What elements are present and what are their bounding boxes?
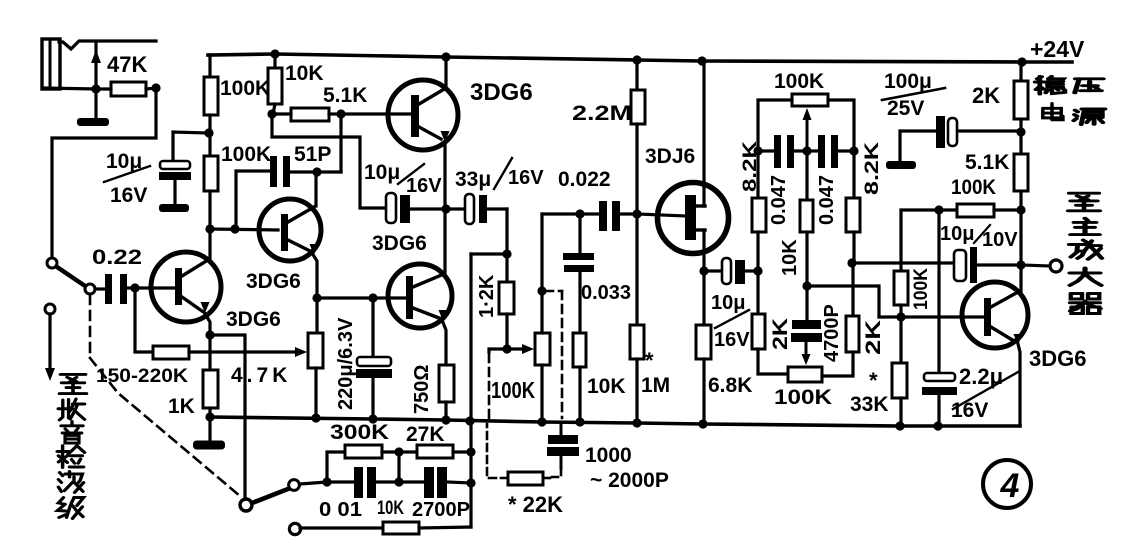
wire FET drain to rail [702, 61, 705, 206]
capacitor 0.022 [580, 212, 599, 215]
resistor 6.8K [702, 271, 705, 325]
capacitor 0.01 [327, 480, 354, 483]
node tone column rail crossing [465, 416, 474, 425]
switch S1a blade [57, 267, 85, 286]
figure number 4 circled [983, 460, 1031, 508]
node 5.1K right [336, 109, 345, 118]
wire Q4 collector column [443, 209, 446, 275]
node 10K top [270, 49, 279, 58]
wire tone column down [469, 254, 472, 527]
node 10K bottom [575, 417, 584, 426]
transistor Q2 3DG6 [259, 199, 321, 261]
resistor 10K mid [805, 151, 808, 200]
svg-text:3DJ6: 3DJ6 [645, 145, 695, 168]
resistor 47K [111, 82, 146, 96]
svg-text:4: 4 [1000, 467, 1020, 505]
phone jack J1 [42, 39, 60, 89]
wire Q1 emitter down [204, 312, 210, 335]
node 100K-33K junction [896, 312, 905, 321]
node Q1 base [130, 283, 139, 292]
resistor 5.1K [291, 108, 329, 121]
resistor 2.2M [635, 60, 638, 90]
transistor U1 3DJ6 FET [658, 183, 729, 254]
wire base bus to Q2 [210, 229, 278, 230]
svg-text:3DG6: 3DG6 [1029, 346, 1086, 371]
svg-text:1M: 1M [641, 374, 670, 397]
node rail left end [205, 412, 214, 421]
wire Q6 collector [1019, 265, 1022, 292]
terminal to main amp [1050, 260, 1062, 272]
resistor 27K [417, 445, 453, 458]
node FET source [699, 266, 708, 275]
resistor 100K feedback vertical [901, 210, 939, 271]
resistor 10K series [300, 526, 383, 529]
potentiometer 100K treble [792, 94, 828, 106]
svg-text:100K: 100K [774, 386, 832, 409]
svg-text:100K: 100K [951, 176, 996, 199]
node 6.8K bottom [698, 419, 707, 428]
node 5.1K left [267, 109, 276, 118]
node 0.01-2700P [394, 477, 403, 486]
capacitor 10u/16V source [704, 269, 722, 272]
wire 4700P wiper arrow [805, 342, 808, 355]
node FET source tone [753, 266, 762, 275]
capacitor 33u/16V [446, 207, 465, 210]
svg-text:4700P: 4700P [821, 304, 843, 362]
resistor 10K shunt [573, 333, 586, 367]
node 33K bottom [895, 421, 904, 430]
capacitor 2.2u/16V [924, 373, 955, 381]
wire 150-220K to 4.7K wiper arrow [189, 350, 296, 353]
wire Q2 emitter to Q4 base [317, 296, 406, 299]
wire 5.1K left loop to 10u cap [272, 114, 386, 208]
svg-text:220μ/6.3V: 220μ/6.3V [335, 317, 357, 410]
resistor 100K lower [204, 156, 218, 191]
node wiper [502, 344, 511, 353]
wire treble wiper arrow [806, 118, 809, 151]
svg-text:100K: 100K [911, 268, 932, 310]
node 100K junction [204, 128, 213, 137]
svg-text:25V: 25V [887, 97, 924, 120]
transistor Q6 3DG6 [962, 282, 1028, 348]
svg-text:0.022: 0.022 [558, 168, 611, 191]
wire radio output arrow [48, 314, 51, 370]
dashed wiper branch down [488, 354, 491, 418]
node rail 2.2M [632, 55, 641, 64]
node base bus mid [230, 224, 239, 233]
wire 51P left column [236, 171, 270, 229]
svg-text:150-220K: 150-220K [96, 365, 188, 387]
label 至收音检波级 to radio detector vertical [60, 374, 87, 393]
svg-text:~ 2000P: ~ 2000P [590, 469, 669, 492]
node jack-right junction [151, 83, 160, 92]
node mid tone [802, 281, 811, 290]
capacitor 2700P [424, 467, 434, 498]
ground rail left [208, 417, 211, 441]
wire Q2 collector [314, 172, 317, 206]
node gate [632, 209, 641, 218]
capacitor 10u/10V out [953, 263, 955, 265]
wire pot top node [542, 212, 580, 215]
capacitor 220u/6.3V [371, 298, 374, 357]
capacitor 0.22 input [105, 274, 112, 304]
capacitor 10u/16V input bypass [173, 132, 209, 161]
wire 47K node down-left to switch [52, 88, 156, 258]
wire Q3 base [341, 112, 411, 115]
svg-text:10V: 10V [982, 229, 1018, 251]
resistor 2K right [846, 316, 859, 352]
node 100u tap [1016, 127, 1025, 136]
node emitter junction [441, 204, 450, 213]
svg-text:2K: 2K [972, 83, 1000, 108]
switch S1b contact A [289, 480, 300, 491]
capacitor 4700P [792, 320, 821, 329]
svg-text:2K: 2K [769, 318, 792, 350]
svg-text:27K: 27K [406, 423, 445, 446]
node right tone [847, 258, 856, 267]
switch S1a contact from preamp [47, 258, 57, 268]
node 220u ground [368, 414, 377, 423]
svg-text:47K: 47K [107, 52, 147, 77]
node 2.2u bottom [933, 421, 942, 430]
dashed link 22K left [487, 424, 508, 478]
capacitor 0.047 left [758, 149, 774, 152]
svg-text:16V: 16V [714, 329, 750, 351]
node Q3 collector rail [441, 52, 450, 61]
svg-text:2K: 2K [862, 320, 885, 355]
svg-text:10K: 10K [779, 239, 801, 276]
dashed wire pot tap to loudness [545, 290, 562, 293]
svg-text:10K: 10K [285, 62, 324, 85]
wire bottom ground rail [210, 417, 1020, 426]
svg-text:8.2K: 8.2K [862, 142, 883, 195]
svg-text:16V: 16V [110, 184, 147, 207]
capacitor 0.033 [578, 214, 581, 253]
svg-text:* 22K: * 22K [508, 492, 563, 517]
label 稳压电源 regulated power supply [1035, 76, 1065, 94]
svg-text:3DG6: 3DG6 [226, 308, 281, 331]
switch S1a contact radio [45, 304, 55, 314]
switch S1b blade [252, 489, 288, 503]
svg-text:10μ: 10μ [940, 223, 974, 245]
node 100K bias right [1016, 205, 1025, 214]
resistor 8.2K left [756, 151, 759, 198]
capacitor 10u/16V coupling [386, 193, 396, 223]
node 1M bottom [632, 418, 641, 427]
resistor 750ohm [442, 320, 446, 365]
svg-text:300K: 300K [330, 421, 389, 444]
potentiometer 100K volume [535, 333, 550, 365]
resistor 2K left [752, 314, 765, 349]
wire Q1 emitter to tone switch [210, 335, 245, 500]
wire Q6 emitter to rail [1018, 344, 1020, 426]
dashed gang link S1a-S1b [89, 295, 92, 358]
wire jack signal lead with up arrow [94, 42, 97, 88]
wire bias column down [937, 210, 940, 373]
svg-text:100K: 100K [491, 377, 535, 403]
svg-text:10μ: 10μ [364, 161, 400, 184]
svg-text:16V: 16V [508, 167, 544, 189]
svg-text:1000: 1000 [585, 444, 632, 467]
resistor 1K [208, 335, 211, 370]
switch S1b pole [240, 499, 252, 511]
node 750 bottom [441, 415, 450, 424]
svg-text:33K: 33K [850, 393, 889, 416]
wire left tone column [756, 232, 759, 314]
wire wiper left branch [489, 349, 507, 352]
svg-text:2700P: 2700P [412, 499, 470, 521]
label 至主放大器 to main amplifier vertical [1068, 193, 1100, 211]
transistor Q1 3DG6 [151, 252, 221, 322]
resistor 1M [635, 214, 638, 325]
svg-text:*: * [869, 368, 878, 393]
svg-text:10K: 10K [377, 498, 404, 519]
node Q1 emitter [205, 330, 214, 339]
transistor Q3 3DG6 [388, 80, 458, 150]
resistor 22K [508, 472, 543, 485]
svg-text:10μ: 10μ [711, 292, 745, 314]
wire Q6 base [879, 315, 984, 318]
node 27K right [466, 447, 475, 456]
resistor 150-220K feedback [135, 288, 153, 352]
node jack-left junction [91, 84, 100, 93]
node 2700P right [466, 478, 475, 487]
node 300K-27K [394, 447, 403, 456]
node Q2 emitter [312, 293, 321, 302]
wire wiper arrow to volume pot [507, 347, 522, 350]
svg-text:5.1K: 5.1K [965, 151, 1009, 174]
svg-text:16V: 16V [406, 175, 442, 197]
resistor 10K [273, 54, 276, 68]
svg-text:100K: 100K [220, 77, 270, 100]
wire jack bottom to node [43, 88, 96, 89]
svg-text:*: * [645, 348, 654, 373]
node 1.2K top [502, 249, 511, 258]
resistor 300K [327, 452, 345, 482]
svg-text:33μ: 33μ [455, 168, 491, 191]
wire top +24V supply rail [208, 54, 1072, 62]
resistor 100K upper [208, 55, 211, 77]
wire FET source down [702, 230, 705, 271]
svg-text:5.1K: 5.1K [323, 84, 367, 107]
svg-text:51P: 51P [294, 143, 331, 166]
capacitor 51P [270, 156, 277, 187]
node rail drain [697, 56, 706, 65]
svg-text:3DG6: 3DG6 [470, 79, 533, 106]
wire Q1 collector up [208, 229, 211, 261]
svg-text:0.22: 0.22 [92, 246, 142, 269]
node 220u tap [368, 293, 377, 302]
capacitor 0.047 right [807, 149, 818, 152]
svg-text:100K: 100K [774, 70, 824, 93]
resistor 33K [899, 317, 902, 363]
wire supply column to output node [1019, 210, 1022, 265]
wire Q3 collector to rail [444, 57, 447, 88]
wire 33u out down [505, 209, 508, 254]
svg-text:0.047: 0.047 [816, 175, 838, 225]
dashed link cap to 22K [552, 468, 561, 477]
wire Q3 emitter down [443, 142, 446, 209]
capacitor 100u/25V [957, 129, 1021, 132]
node 0.033 tap [575, 209, 584, 218]
node pot top tap [537, 286, 546, 295]
wire 5.1K right down to 51P [339, 114, 342, 172]
wire link [397, 452, 400, 482]
wire right tone to output cap [853, 261, 954, 264]
wire node to tone column [471, 252, 507, 255]
switch S1b contact B [289, 523, 300, 534]
wire mid tone to Q6 base [807, 286, 879, 317]
node bias top [934, 205, 943, 214]
svg-text:3DG6: 3DG6 [372, 232, 427, 255]
svg-text:+24V: +24V [1030, 36, 1085, 62]
svg-text:0.047: 0.047 [768, 175, 790, 225]
node rail 2K [1017, 57, 1026, 66]
node 300K left [322, 477, 331, 486]
node treble right [849, 146, 858, 155]
svg-text:1K: 1K [168, 395, 195, 418]
switch S1a pole [85, 284, 95, 294]
resistor 1.2K [505, 254, 508, 282]
wire right tone column [852, 232, 855, 263]
node 4.7K bottom [311, 413, 320, 422]
resistor 5.1K supply [1014, 154, 1028, 191]
wire contact A bus [300, 482, 327, 484]
resistor 2K supply [1019, 62, 1022, 81]
svg-text:2.2M: 2.2M [572, 102, 632, 125]
svg-text:0 01: 0 01 [319, 499, 362, 521]
wire gate [637, 214, 686, 216]
node treble left [753, 146, 762, 155]
svg-text:100K: 100K [221, 143, 271, 166]
svg-text:16V: 16V [951, 399, 988, 422]
svg-text:750Ω: 750Ω [411, 365, 433, 414]
svg-text:10K: 10K [587, 375, 626, 398]
resistor 100K bias top [939, 208, 957, 211]
transistor Q4 3DG6 [388, 264, 452, 328]
node base bus left [205, 224, 214, 233]
svg-text:4.7K: 4.7K [231, 364, 291, 387]
resistor 4.7K emitter preset [315, 298, 318, 333]
ground jack node [94, 89, 97, 118]
resistor 8.2K right [852, 151, 855, 198]
node treble mid [802, 146, 811, 155]
potentiometer 100K bass [788, 367, 822, 382]
node output [1016, 260, 1025, 269]
svg-text:3DG6: 3DG6 [246, 270, 301, 293]
svg-text:100μ: 100μ [884, 70, 932, 93]
node 51P right [312, 167, 321, 176]
capacitor 1000-2000P [560, 422, 563, 435]
svg-text:6.8K: 6.8K [708, 374, 752, 397]
svg-text:1·2K: 1·2K [476, 274, 498, 318]
svg-text:0.033: 0.033 [581, 282, 631, 304]
node pot bottom [537, 417, 546, 426]
wire Q2 emitter [312, 253, 317, 298]
